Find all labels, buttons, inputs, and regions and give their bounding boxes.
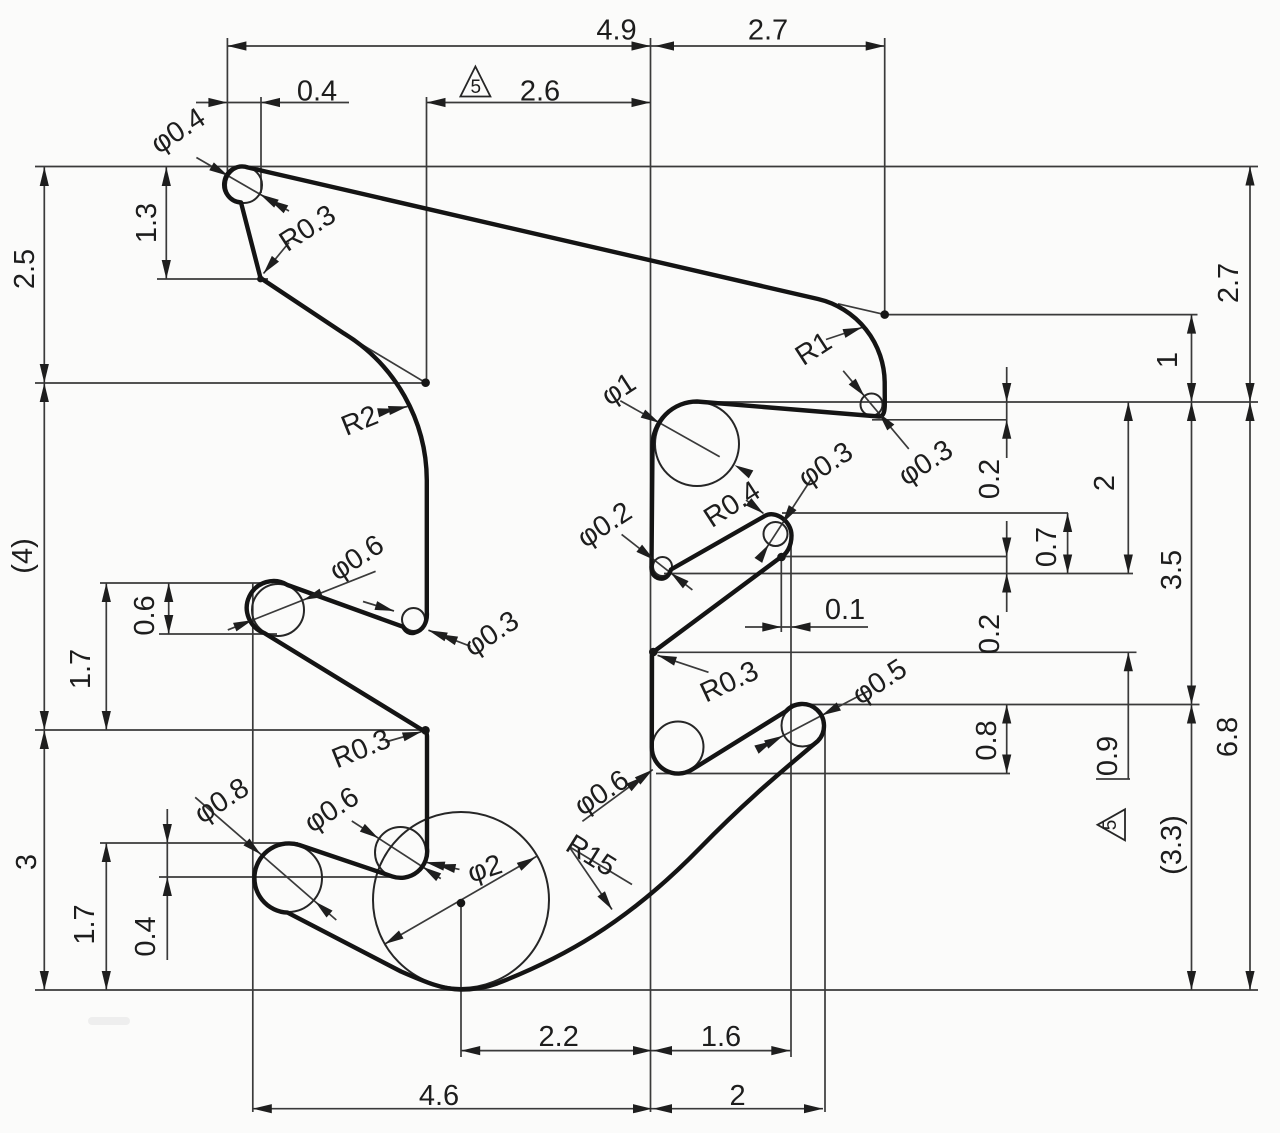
svg-text:5: 5	[471, 77, 482, 98]
double arrowhead phi0.3 lf	[427, 626, 448, 641]
svg-text:2: 2	[729, 1080, 745, 1112]
double arrowhead R2	[388, 402, 408, 415]
dim line 0.2 lower	[1006, 521, 1008, 612]
triangle-5 symbol top	[460, 67, 490, 97]
arrowhead 3 top	[40, 730, 49, 749]
leader phi0.8	[195, 797, 336, 920]
circle phi0.3 R0.4 bulb	[764, 522, 788, 546]
ext line y573	[664, 573, 1133, 575]
arrowhead R15	[597, 891, 615, 912]
arrowhead phi0.6 lf far	[233, 616, 254, 632]
tick under 0.9	[1096, 778, 1130, 780]
ext line top y166	[35, 166, 1258, 168]
ext line x252	[252, 583, 254, 1112]
dim line 2.2/1.6	[461, 1050, 790, 1052]
arrowhead 0.9 top	[1124, 652, 1133, 671]
leader phi0.5	[764, 690, 870, 746]
svg-text:2.7: 2.7	[748, 15, 788, 47]
dim line 0.9	[1127, 652, 1129, 778]
arrowhead phi1 far	[732, 461, 753, 478]
arrowhead 4.6 right	[633, 1104, 652, 1113]
leader R0.3 br fork	[658, 655, 709, 672]
arrowhead 0.2l top	[1002, 538, 1011, 557]
ext line x261	[260, 97, 262, 193]
arrowhead phi0.8 near	[243, 838, 263, 857]
dot top-right	[880, 310, 889, 319]
arrowhead 2.6 left	[427, 98, 446, 107]
arrowhead 1 bottom	[1187, 383, 1196, 402]
leader phi0.6 left fork	[228, 571, 376, 630]
arrowhead 1.6 left	[653, 1046, 672, 1055]
arrowhead R0.3 brf	[656, 651, 677, 666]
svg-text:1: 1	[1152, 352, 1184, 368]
arrowhead 0.2l bottom	[1002, 574, 1011, 593]
arrowhead 0.7 top	[1063, 513, 1072, 532]
arrowhead 2 bottom left	[653, 1104, 672, 1113]
leader phi0.3 bulb	[761, 480, 811, 557]
arrowhead phi2 lower	[383, 931, 404, 948]
arrowhead 2.2 left	[461, 1046, 480, 1055]
svg-text:0.2: 0.2	[974, 459, 1006, 499]
circle phi0.2	[653, 557, 672, 576]
dim line 4.6/2	[253, 1108, 823, 1110]
arrowhead phi0.8 far	[312, 898, 332, 917]
arrowhead 2.2 right	[633, 1046, 652, 1055]
arrowhead 0.2u bottom	[1002, 420, 1011, 439]
svg-text:2.7: 2.7	[1213, 263, 1245, 303]
arrowhead R0.3 lf	[402, 727, 423, 741]
arrowhead 2.7 top left	[655, 41, 674, 50]
faint smudge artifact	[88, 1017, 130, 1025]
svg-text:0.4: 0.4	[130, 916, 162, 956]
dot R0.4 bulb	[777, 553, 786, 562]
ext line y843	[100, 842, 298, 844]
ext line x650	[650, 38, 652, 1112]
svg-text:1.7: 1.7	[69, 904, 101, 944]
ext line x825	[824, 728, 826, 1112]
arrowhead 1.7u top	[102, 583, 111, 602]
arrowhead 0.8 top	[1002, 705, 1011, 724]
dot R2 vertex	[421, 378, 430, 387]
arrowhead 1.7u bottom	[102, 711, 111, 730]
arrowhead 1.6 right	[771, 1046, 790, 1055]
svg-text:6.8: 6.8	[1212, 717, 1244, 757]
circle phi0.3 left fork	[402, 608, 425, 631]
svg-text:3: 3	[11, 854, 43, 870]
svg-text:2: 2	[1089, 475, 1121, 491]
diameter line phi2	[385, 856, 537, 944]
arrowhead phi0.3 tr near	[875, 410, 894, 430]
leader phi0.3 top-right	[843, 371, 909, 449]
double arrowhead phi0.5 far	[764, 732, 785, 749]
dot phi2 center	[457, 899, 466, 908]
svg-text:2.6: 2.6	[520, 76, 560, 108]
dim line 0.7	[1067, 513, 1069, 574]
svg-text:0.4: 0.4	[297, 76, 337, 108]
svg-text:0.2: 0.2	[974, 614, 1006, 654]
arrowhead 4.9 left	[227, 41, 246, 50]
arrowhead phi0.3 lf aux	[374, 601, 395, 615]
ext line y314	[885, 314, 1198, 316]
ext line x426	[426, 97, 428, 383]
svg-text:4.6: 4.6	[419, 1080, 459, 1112]
arrowhead (4) bottom	[40, 711, 49, 730]
double arrowhead phi0.4 far	[258, 190, 279, 207]
arrowhead 3.5 top	[1187, 402, 1196, 421]
arrowhead 0.2u top	[1002, 383, 1011, 402]
arrowhead 2r bottom	[1124, 555, 1133, 574]
double arrowhead phi0.6 cor	[425, 858, 446, 871]
arrowhead (3.3) bottom	[1187, 971, 1196, 990]
arrowhead 2.7r bottom	[1245, 383, 1254, 402]
dim line 0.2 upper	[1006, 367, 1008, 458]
svg-text:0.9: 0.9	[1092, 736, 1124, 776]
arrowhead phi0.3 bulb near	[778, 505, 796, 526]
arrowhead phi2 upper	[517, 853, 538, 870]
dot tip corner	[257, 276, 264, 283]
ext line x884	[884, 38, 886, 315]
arrowhead 6.8 bottom	[1245, 971, 1254, 990]
leader R15	[569, 847, 612, 910]
arrowhead 3 bottom	[40, 971, 49, 990]
arrowhead phi0.6 cor far	[420, 863, 441, 881]
leader phi0.4	[196, 158, 289, 212]
arrowhead phi0.3 bulb far	[754, 542, 772, 563]
dim line 0.4 y102	[196, 102, 349, 104]
arrowhead 0.6 top	[164, 583, 173, 602]
leader R0.3 top	[264, 243, 290, 274]
leader R2	[381, 407, 408, 413]
leader phi0.2	[622, 534, 693, 590]
arrowhead R0.4	[746, 498, 767, 517]
dim line x1191 (1/3.5/(3.3))	[1191, 315, 1193, 990]
dim line 4.9/2.7 y46	[227, 45, 884, 47]
arrowhead 2 bottom right	[804, 1104, 823, 1113]
arrowhead (3.3) top	[1187, 705, 1196, 724]
arrowhead 4.6 left	[253, 1104, 272, 1113]
ext line y420	[872, 419, 1007, 421]
arrowhead 1 top	[1187, 315, 1196, 334]
dim line 2.6 y102	[427, 102, 651, 104]
dot br fork R0.3	[649, 648, 658, 657]
arrowhead 0.4 left	[208, 98, 227, 107]
svg-text:(4): (4)	[7, 538, 39, 573]
leader tail phi0.6 corner chevrons	[426, 862, 460, 869]
ext line x781	[780, 558, 782, 632]
dim line 0.1	[745, 626, 868, 628]
arrowhead phi0.3 tr far	[849, 379, 868, 399]
ext line x227	[226, 38, 228, 177]
leader phi1	[620, 401, 719, 457]
svg-text:5: 5	[1100, 820, 1121, 831]
arrowhead 1.7l bottom	[102, 971, 111, 990]
ext line y279	[157, 278, 268, 280]
dim line 0.6	[168, 583, 170, 634]
dim line 1.7 lower	[105, 843, 107, 990]
arrowhead 0.1 right	[792, 622, 811, 631]
circle phi0.8	[254, 844, 322, 912]
arrowhead phi0.4 near	[209, 162, 230, 179]
ext line y402	[707, 401, 1258, 403]
underline R15	[569, 847, 632, 885]
ext line y383	[35, 382, 426, 384]
circle phi0.6 br fork	[653, 722, 704, 773]
dim line 1.7 upper	[105, 583, 107, 730]
circle phi0.4 tip	[226, 167, 262, 203]
arrowhead 0.4l top	[163, 824, 172, 843]
arrowhead phi0.6 cor near	[360, 824, 381, 842]
svg-text:1.7: 1.7	[65, 649, 97, 689]
circle phi0.6 corner	[375, 827, 426, 878]
arrowhead 4.9 right	[632, 41, 651, 50]
dim line 1.3	[165, 167, 167, 279]
dim line x1250 (2.7/6.8)	[1249, 167, 1251, 991]
ext line y583	[100, 582, 266, 584]
ext line x461	[460, 907, 462, 1057]
svg-text:(3.3): (3.3)	[1156, 815, 1188, 875]
leader phi0.6 corner	[352, 821, 441, 879]
arrowhead 1.7l top	[102, 843, 111, 862]
arrowhead 0.1 left	[762, 622, 781, 631]
svg-text:0.6: 0.6	[129, 595, 161, 635]
arrowhead 0.6 bottom	[164, 615, 173, 634]
double arrowhead phi0.6 brf	[635, 766, 656, 785]
triangle-5 symbol right	[1098, 809, 1126, 840]
leader R0.3 left fork	[386, 732, 422, 742]
arrowhead R1	[843, 323, 864, 338]
arrowhead 2.5 bottom	[40, 364, 49, 383]
ext line x791	[790, 534, 792, 1057]
arrowhead 6.8 top	[1245, 402, 1254, 421]
ext line y730	[35, 729, 426, 731]
arrowhead 0.4l bottom	[163, 877, 172, 896]
ext line y556	[783, 556, 1007, 558]
arrowhead 2.7r top	[1245, 167, 1254, 186]
leader phi0.3 left fork	[428, 630, 470, 646]
svg-text:2.5: 2.5	[9, 249, 41, 289]
circle phi0.6 left fork	[252, 584, 304, 636]
arrowhead 2.7 top right	[866, 41, 885, 50]
dim line 0.4 lower	[166, 809, 168, 960]
arrowhead phi0.2 far	[668, 569, 689, 588]
ext line y513	[782, 512, 1068, 514]
circle phi1	[655, 402, 739, 486]
svg-text:2.2: 2.2	[539, 1021, 579, 1053]
svg-text:0.7: 0.7	[1031, 527, 1063, 567]
arrowhead 0.8 bottom	[1002, 755, 1011, 774]
circle phi2	[373, 812, 549, 988]
arrowhead phi0.6 lf near	[302, 589, 323, 605]
ext line y704	[790, 704, 1200, 706]
leader phi0.6 br fork	[582, 770, 652, 822]
dim line 0.8	[1006, 705, 1008, 774]
leader R0.4	[746, 500, 764, 514]
tangent ext R2	[346, 335, 426, 383]
leader R1	[826, 328, 862, 340]
arrowhead 2.5 top	[40, 167, 49, 186]
dot left fork R0.3	[421, 726, 430, 735]
svg-text:1.6: 1.6	[701, 1021, 741, 1053]
arrowhead phi0.2 near	[636, 545, 657, 564]
arrowhead 0.4 right	[261, 98, 280, 107]
ext line y652	[655, 651, 1137, 653]
arrowhead 0.7 bottom	[1063, 555, 1072, 574]
dim line x44 (2.5/(4)/3)	[43, 167, 45, 990]
ext line y773	[656, 773, 1010, 775]
baseline y990	[35, 989, 1258, 991]
arrowhead 1.3 top	[162, 167, 171, 186]
arrowhead R0.3 top	[260, 256, 279, 277]
svg-text:0.8: 0.8	[971, 720, 1003, 760]
arrowhead (4) top	[40, 383, 49, 402]
arrowhead 3.5 bottom	[1187, 686, 1196, 705]
arrowhead 2r top	[1124, 402, 1133, 421]
dim line 2 right	[1127, 402, 1129, 574]
profile outline	[224, 167, 885, 990]
circle phi0.3 top-right	[861, 394, 883, 416]
svg-text:0.1: 0.1	[825, 594, 865, 626]
arrowhead 1.3 bottom	[162, 260, 171, 279]
svg-text:3.5: 3.5	[1156, 550, 1188, 590]
arrowhead phi1 near	[641, 410, 662, 427]
ext line y634	[159, 633, 277, 635]
svg-text:4.9: 4.9	[596, 15, 636, 47]
svg-text:1.3: 1.3	[131, 203, 163, 243]
ext line y877	[159, 876, 392, 878]
arrowhead 2.6 right	[632, 98, 651, 107]
leader phi0.3 left fork aux	[363, 602, 394, 612]
arrowhead phi0.5 near	[820, 702, 841, 719]
circle phi0.5	[782, 705, 824, 747]
tangent ext top-right	[838, 304, 885, 315]
